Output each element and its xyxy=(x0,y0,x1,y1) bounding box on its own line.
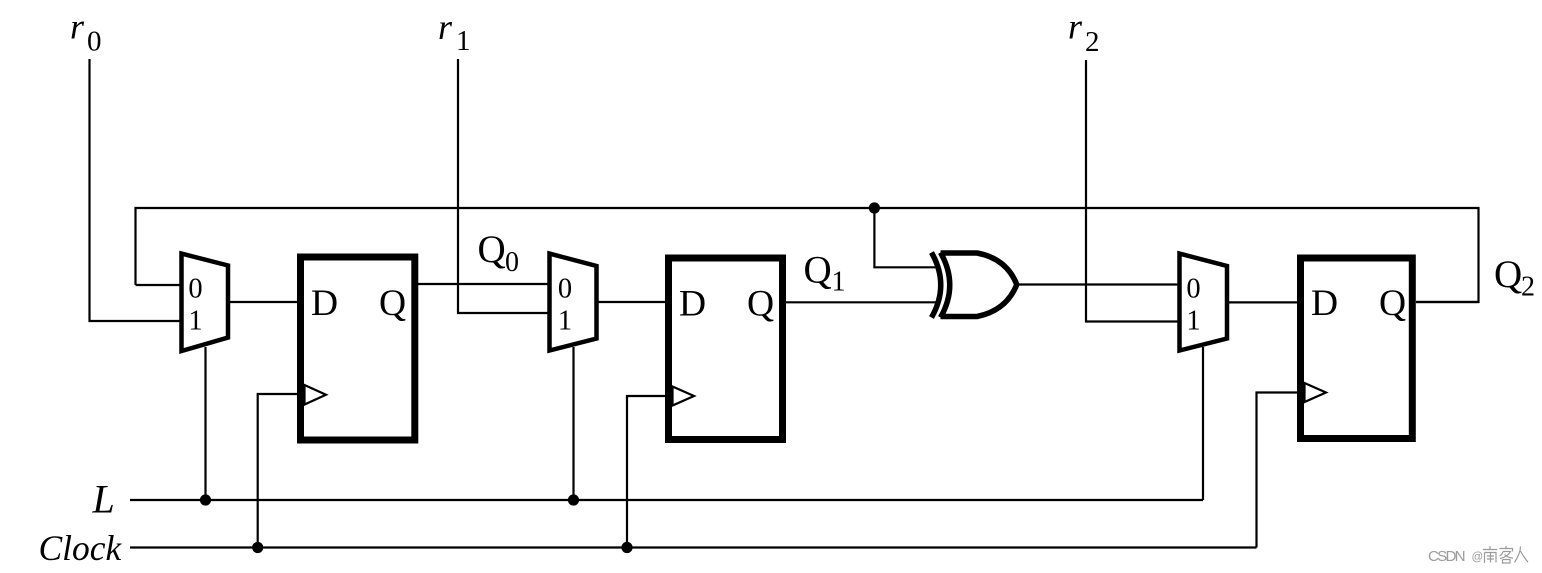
wire MUX3 select to L end xyxy=(1202,347,1204,500)
svg-text:r: r xyxy=(1068,7,1083,47)
svg-text:D: D xyxy=(679,284,706,325)
wire MUX1 output to FF1 D xyxy=(228,301,297,303)
label Q2 xyxy=(1494,253,1535,303)
svg-text:CSDN: CSDN xyxy=(1428,548,1465,565)
wire FF1 Q output to MUX2 input 0 xyxy=(418,283,550,285)
svg-text:Q: Q xyxy=(1494,253,1522,296)
svg-text:0: 0 xyxy=(188,274,202,305)
svg-text:Q: Q xyxy=(747,284,774,325)
svg-text:1: 1 xyxy=(558,306,572,337)
svg-text:r: r xyxy=(438,7,453,47)
svg-text:2: 2 xyxy=(1085,26,1100,58)
clock triangle FF1 xyxy=(305,385,327,405)
flip-flop FF1 xyxy=(301,257,415,440)
svg-text:0: 0 xyxy=(87,26,102,58)
svg-text:0: 0 xyxy=(558,274,572,305)
wire MUX1 select to L xyxy=(204,347,206,500)
clock triangle FF2 xyxy=(673,387,695,406)
wire MUX2 select to L xyxy=(572,347,574,500)
wire feedback into MUX1 input 0 xyxy=(136,284,182,286)
mux U2 (2-to-1) xyxy=(550,254,597,351)
node dot MUX1 select on L xyxy=(200,494,211,505)
node dot FF1 clock on Clock xyxy=(252,542,263,553)
svg-text:@: @ xyxy=(1472,552,1484,564)
svg-text:L: L xyxy=(92,477,115,522)
wire L line xyxy=(130,499,1203,501)
node dot MUX2 select on L xyxy=(568,494,579,505)
svg-text:D: D xyxy=(311,283,338,324)
wire FF2 clock to Clock line xyxy=(627,396,665,548)
label r1 xyxy=(438,7,471,57)
wire r2 vertical into MUX3 input 1 xyxy=(1086,60,1180,322)
label r0 xyxy=(70,7,102,58)
wire feedback tap to XOR top input xyxy=(874,208,937,267)
flip-flop FF2 xyxy=(669,258,783,440)
glyph 人 xyxy=(1515,547,1529,563)
svg-text:1: 1 xyxy=(832,267,846,298)
node junction on feedback xyxy=(869,202,880,213)
label r2 xyxy=(1068,7,1100,59)
wire FF3 Q output to feedback riser xyxy=(1416,301,1479,303)
wire FF2 Q output to XOR lower input xyxy=(786,301,937,303)
wire FF1 clock to Clock line xyxy=(258,394,297,548)
mux U3 (2-to-1) xyxy=(1180,254,1228,351)
mux U1 (2-to-1) xyxy=(182,254,229,351)
svg-text:1: 1 xyxy=(188,306,202,337)
wire MUX3 output to FF3 D xyxy=(1227,301,1297,303)
svg-text:2: 2 xyxy=(1521,272,1535,303)
label Q1 xyxy=(804,249,846,298)
xor gate G1 xyxy=(932,253,1017,318)
watermark CSDN xyxy=(1428,546,1528,565)
clock triangle FF3 xyxy=(1305,383,1327,402)
svg-text:Q: Q xyxy=(804,249,832,292)
wire MUX2 output to FF2 D xyxy=(597,301,666,303)
svg-text:0: 0 xyxy=(505,247,519,278)
svg-text:D: D xyxy=(1311,283,1338,324)
wire FF3 clock to Clock line end xyxy=(1257,393,1298,548)
svg-text:0: 0 xyxy=(1186,274,1200,305)
svg-text:Q: Q xyxy=(379,283,406,324)
flip-flop FF3 xyxy=(1301,258,1413,439)
wire r1 vertical into MUX2 input 1 xyxy=(458,59,550,313)
glyph 南 xyxy=(1483,546,1497,563)
label Q0 xyxy=(478,228,520,278)
svg-text:Q: Q xyxy=(478,228,506,271)
wire Clock line xyxy=(130,546,1257,548)
node dot FF2 clock on Clock xyxy=(621,542,632,553)
svg-text:r: r xyxy=(70,7,85,47)
svg-text:Clock: Clock xyxy=(39,528,123,568)
glyph 客 xyxy=(1500,546,1514,563)
wire XOR output to MUX3 input 0 xyxy=(1017,283,1180,285)
wire r0 vertical into MUX1 input 1 xyxy=(90,59,182,321)
svg-text:Q: Q xyxy=(1379,283,1406,324)
svg-text:1: 1 xyxy=(1186,306,1200,337)
wire feedback top horizontal from Q2 xyxy=(136,208,1479,302)
svg-text:1: 1 xyxy=(456,25,471,57)
